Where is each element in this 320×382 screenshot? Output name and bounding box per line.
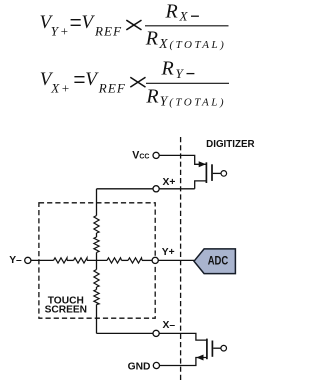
wire Y+ to ADC: [158, 259, 194, 261]
svg-text:Y–: Y–: [9, 255, 22, 266]
wire X-: [97, 333, 207, 340]
svg-text:REF: REF: [94, 23, 122, 38]
wire Q2 source to GND: [160, 358, 207, 366]
terminal X-: [153, 330, 159, 336]
resistor right-2 on Y plate: [128, 258, 142, 263]
wire Y plate left: [31, 259, 152, 261]
touch screen dashed box: [39, 203, 155, 318]
svg-text:R: R: [161, 58, 174, 80]
svg-text:SCREEN: SCREEN: [45, 305, 87, 316]
transistor Q1 (top, drain arrow): [199, 161, 227, 183]
svg-text:R: R: [165, 0, 178, 22]
svg-text:X+: X+: [50, 80, 70, 95]
wire vertical X plate: [96, 189, 98, 334]
terminal X+: [153, 186, 159, 192]
svg-text:GND: GND: [128, 361, 151, 372]
resistor upper-1 on X plate: [94, 216, 99, 234]
svg-text:DIGITIZER: DIGITIZER: [206, 139, 254, 150]
svg-text:Y+: Y+: [51, 23, 69, 38]
svg-text:Y+: Y+: [162, 247, 175, 258]
svg-text:R: R: [145, 28, 158, 50]
terminal GND: [153, 362, 159, 368]
wire VCC to Q1 drain: [159, 155, 206, 164]
svg-text:REF: REF: [98, 80, 126, 95]
equation 2: VX+ = VREF x RY- / RY(TOTAL): [40, 58, 229, 109]
wire X+: [97, 188, 195, 190]
svg-text:ADC: ADC: [208, 254, 229, 268]
svg-text:X: X: [179, 9, 189, 24]
resistor lower-1 on X plate: [94, 270, 99, 288]
resistor left-1 on Y plate: [54, 258, 68, 263]
svg-text:X–: X–: [163, 320, 176, 331]
transistor Q2 (bottom, source arrow): [196, 339, 226, 361]
resistor left-2 on Y plate: [74, 258, 88, 263]
terminal Y-: [25, 257, 31, 263]
svg-text:X+: X+: [163, 177, 176, 188]
terminal VCC: [153, 152, 159, 158]
svg-text:R: R: [145, 85, 158, 107]
wire Q1 source to X+ node: [195, 181, 206, 189]
terminal Y+: [152, 257, 158, 263]
digitizer boundary dashed line: [180, 137, 182, 382]
resistor lower-2 on X plate: [94, 290, 99, 305]
resistor right-1 on Y plate: [107, 258, 122, 263]
resistor upper-2 on X plate: [94, 237, 99, 253]
svg-text:Y(TOTAL): Y(TOTAL): [160, 94, 226, 109]
equation 1: VY+ = VREF x RX- / RX(TOTAL): [40, 0, 229, 51]
ADC block: [194, 249, 235, 274]
